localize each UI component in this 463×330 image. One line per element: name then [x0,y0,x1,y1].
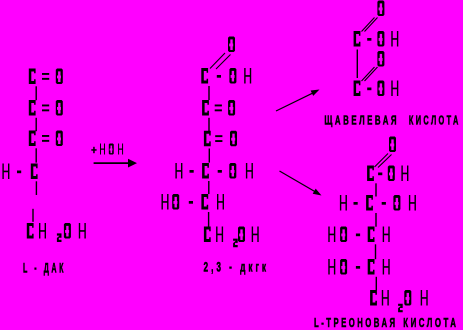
threonic row HO-CH (2) [328,259,389,275]
oxalic double bond (2) [362,67,378,81]
2,3-DKGK row C=O (3) [204,131,237,147]
bond tC1-tC2 [375,183,376,196]
2,3-DKGK row H-C-OH [175,163,253,179]
bond below C4 [36,181,37,195]
threonic row H-C-OH [340,195,416,211]
L-DAK row CH2OH [27,223,86,242]
main reaction arrow [94,159,137,168]
2,3-DKGK C=O double bond diagonal [210,53,231,69]
L-DAK row H-C [2,164,37,180]
oxalic row C-OH (2) [354,81,399,97]
svg-text:L-ТРЕОНОВАЯ: L-ТРЕОНОВАЯ [314,316,398,330]
label oxalic acid [324,114,460,128]
bond tC3-tC4 [375,244,376,259]
label 2,3-DKGK [204,259,270,275]
svg-text:L - ДАК: L - ДАК [23,260,66,276]
threonic row HO-CH (1) [328,227,389,243]
2,3-DKGK row HO-CH [162,194,225,210]
bond C1-C2 [36,86,37,100]
threonic top O [389,137,396,153]
bond mC5-mC6 [208,212,209,227]
bond mC2-mC3 [208,118,209,131]
L-DAK row C=O (2) [29,100,63,116]
arrow to oxalic acid [276,90,320,112]
label L-DAK [23,260,66,276]
oxalic double bond (1) [362,18,378,32]
bond above CH2OH [32,209,33,222]
bond mC1-mC2 [208,86,209,100]
bond tC4-tC5 [376,277,377,291]
oxalic row C-OH (1) [354,31,399,47]
arrow to threonic acid [280,171,322,196]
text +HOH [91,144,123,155]
bond C2-C3 [36,118,37,131]
L-DAK row C=O (3) [29,131,63,147]
threonic double bond [375,154,392,168]
threonic row CH2OH [370,290,428,312]
2,3-DKGK top O of carboxyl [228,37,235,53]
2,3-DKGK row CH2OH [204,227,259,248]
bond tC2-tC3 [375,213,376,227]
oxalic top O (2) [377,51,384,67]
svg-text:КИСЛОТА: КИСЛОТА [409,114,461,128]
svg-text:2,3 - дкгк: 2,3 - дкгк [204,259,270,275]
svg-text:ЩАВЕЛЕВАЯ: ЩАВЕЛЕВАЯ [324,114,399,128]
threonic row C-OH [367,166,408,182]
L-DAK structure: row C=O (1) [29,69,63,85]
2,3-DKGK row C-OH [201,68,251,84]
bond C3-C4 [36,148,37,162]
bond mC3-mC4 [209,149,210,163]
2,3-DKGK row C=O (2) [202,100,235,116]
oxalic C-C bond [357,50,358,79]
svg-text:КИСЛОТА: КИСЛОТА [403,316,458,330]
oxalic top O (1) [377,1,384,17]
label L-threonic acid [314,316,459,330]
bond mC4-mC5 [208,181,209,194]
